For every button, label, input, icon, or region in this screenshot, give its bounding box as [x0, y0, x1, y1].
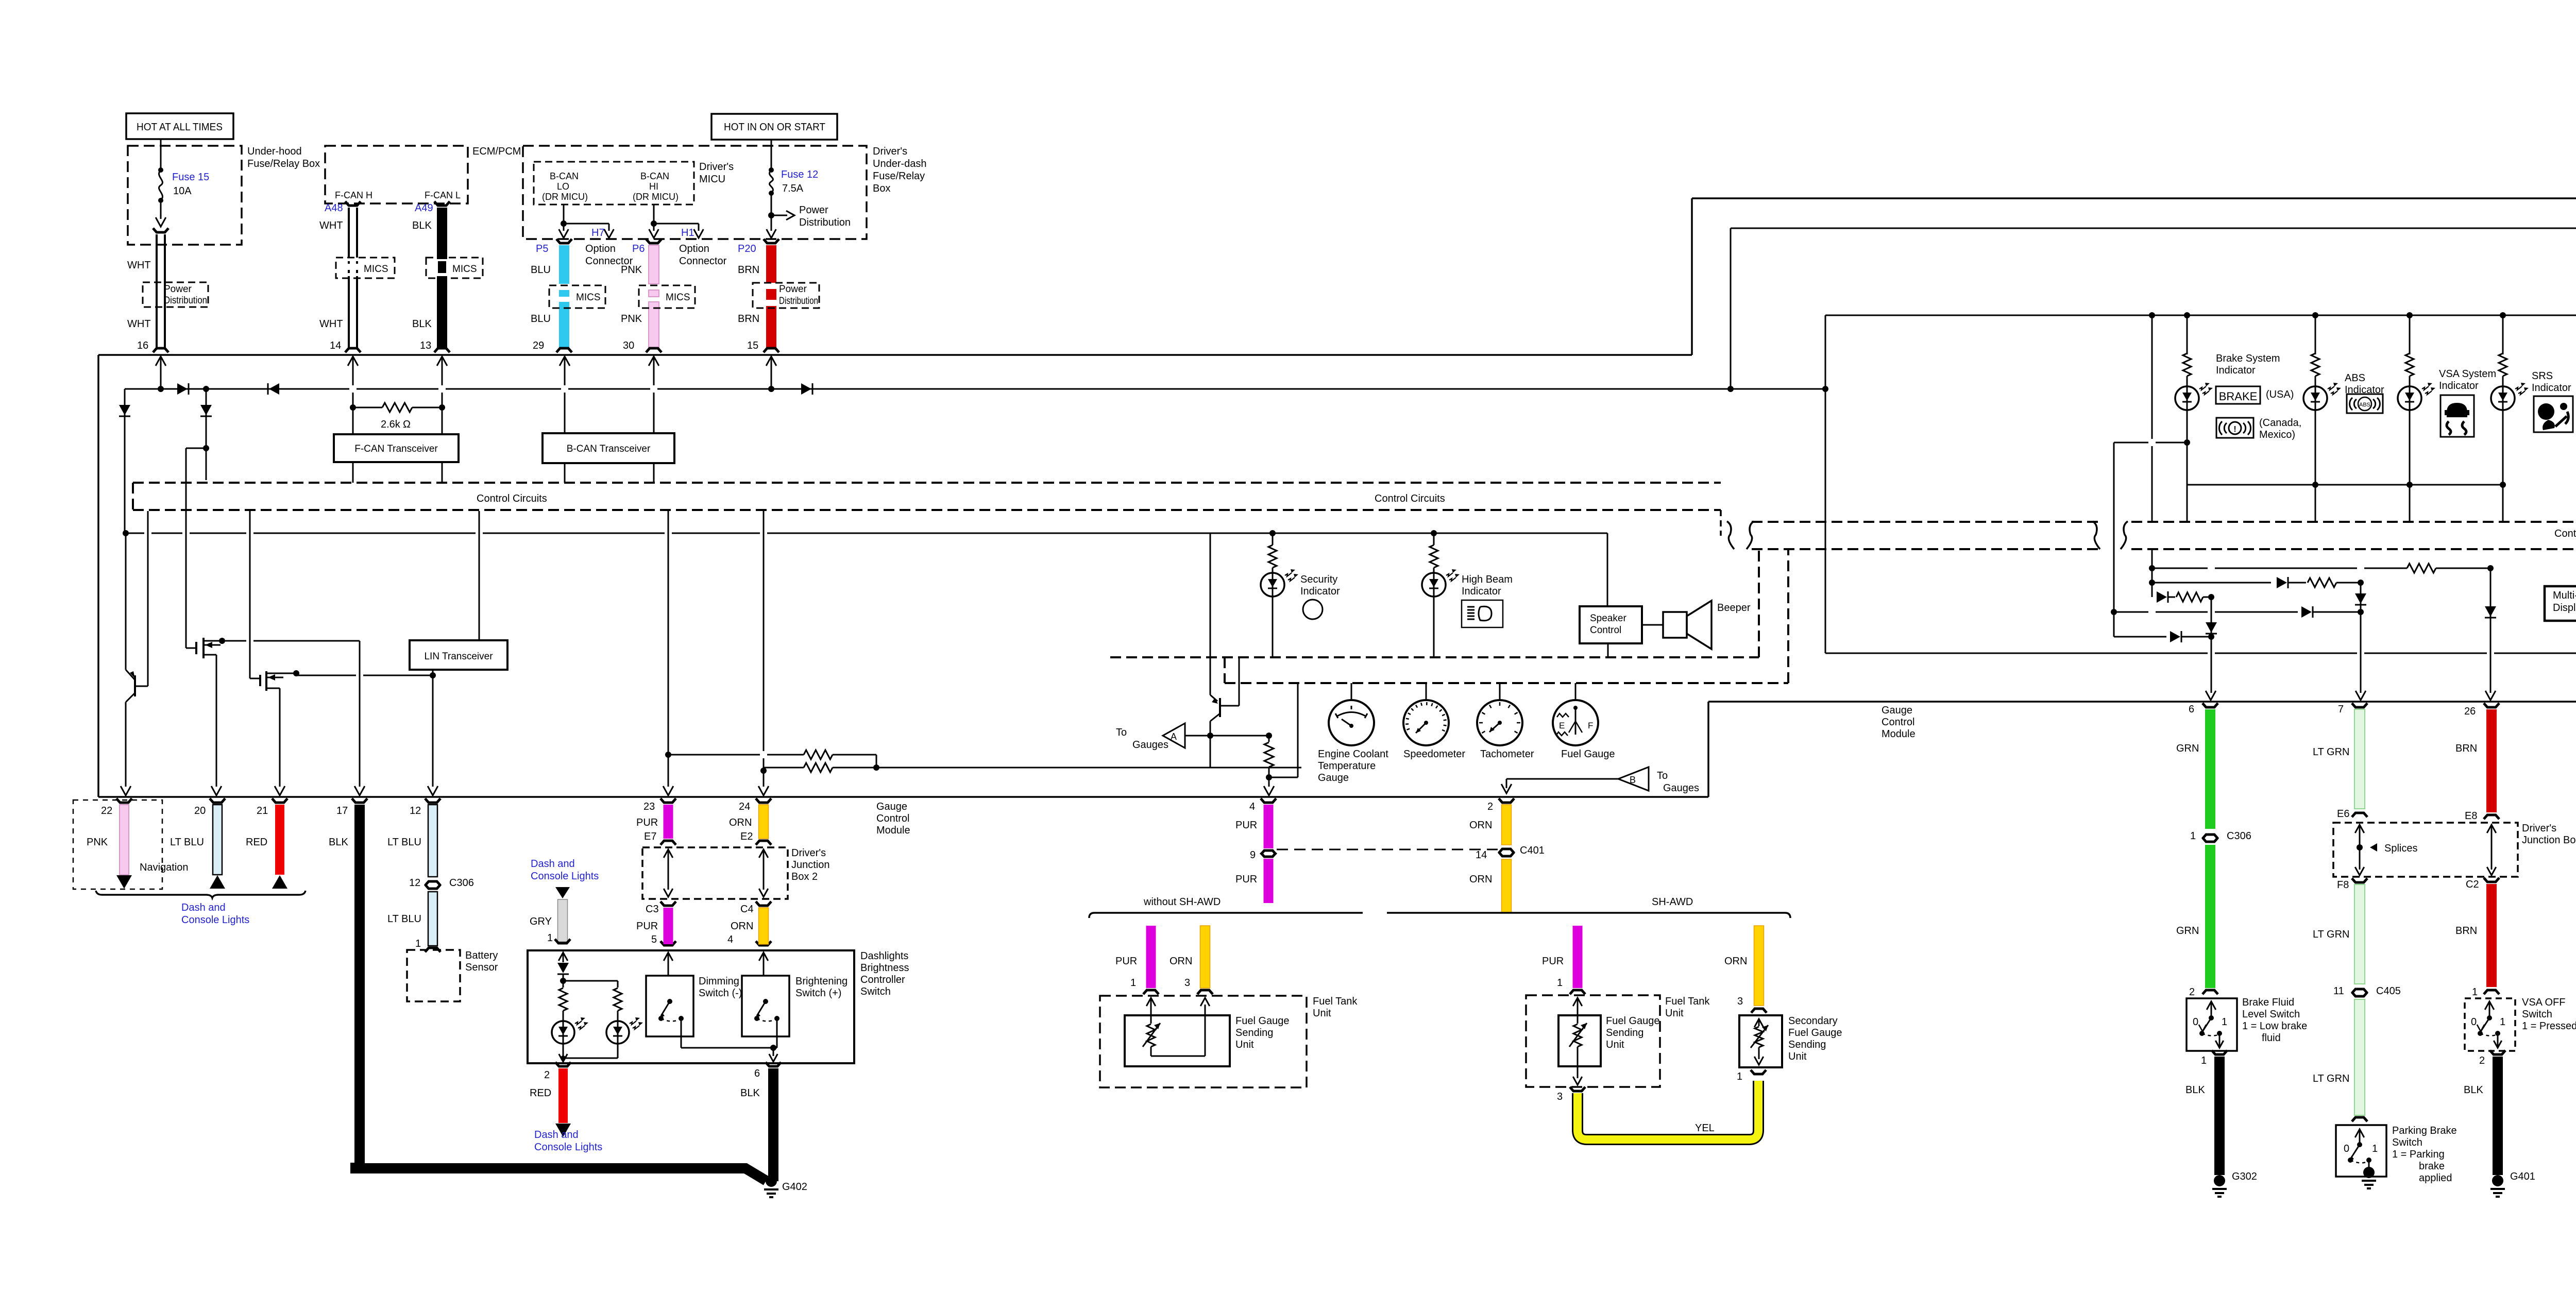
svg-text:20: 20: [194, 805, 206, 816]
indicator bus dots: [2149, 312, 2155, 318]
LIN transceiver bottom lead to terminal 12: [432, 670, 434, 787]
high beam indicator LED: [1422, 573, 1446, 597]
cup into dashlights box: [555, 939, 570, 943]
svg-text:Dimming: Dimming: [699, 976, 739, 987]
row A y=1103 with resistor: [2149, 565, 2155, 571]
branch vertical x=400: [203, 386, 209, 392]
svg-text:ORN: ORN: [1469, 820, 1492, 831]
svg-text:Ω: Ω: [403, 419, 411, 430]
svg-text:BLK: BLK: [412, 318, 432, 330]
svg-text:HOT AT ALL TIMES: HOT AT ALL TIMES: [137, 122, 223, 133]
svg-text:MICS: MICS: [452, 264, 477, 275]
svg-text:4: 4: [727, 934, 733, 945]
engine coolant temperature gauge: [1351, 683, 1352, 700]
connector cup P6: [646, 239, 662, 243]
BLK wire elbow to G402: [355, 1163, 766, 1181]
svg-text:GRN: GRN: [2176, 925, 2199, 937]
left link y=859: [2114, 442, 2148, 444]
svg-text:Engine Coolant: Engine Coolant: [1318, 748, 1388, 760]
F-CAN transceiver box: [352, 407, 354, 434]
internal line y=1035: [123, 530, 129, 536]
svg-text:P6: P6: [632, 243, 645, 254]
wire WHT F-CAN H (double line): [348, 208, 350, 258]
svg-text:MICU: MICU: [699, 174, 725, 185]
svg-text:A49: A49: [415, 202, 433, 214]
diode on rail pointing left: [269, 383, 279, 395]
wire B-CAN LO to P5 and H7: [563, 205, 565, 224]
svg-text:!: !: [2233, 425, 2236, 434]
svg-text:Gauges: Gauges: [1663, 782, 1699, 794]
connector cup 16 top: [153, 228, 168, 232]
svg-text:1: 1: [2500, 1016, 2505, 1028]
svg-text:C405: C405: [2376, 985, 2401, 997]
svg-text:Sensor: Sensor: [465, 962, 498, 973]
svg-text:B-CAN: B-CAN: [640, 171, 669, 181]
svg-text:PUR: PUR: [1235, 874, 1257, 885]
svg-text:3: 3: [1737, 996, 1743, 1007]
svg-text:4: 4: [1249, 801, 1255, 812]
svg-text:HOT IN ON OR START: HOT IN ON OR START: [724, 122, 825, 133]
svg-text:To: To: [1657, 770, 1668, 781]
svg-text:Secondary: Secondary: [1788, 1015, 1838, 1027]
gauges dashed band top y=1276: [1110, 656, 1759, 658]
terminal 4 arrow into box: [759, 952, 768, 961]
svg-text:1: 1: [2190, 830, 2196, 842]
svg-text:1: 1: [547, 932, 553, 944]
dashlight LED 1 with resistor: [563, 981, 564, 988]
svg-text:Level Switch: Level Switch: [2242, 1009, 2300, 1020]
2.6k ohm resistor between F-CAN wires: [350, 404, 356, 411]
terminal 13 internal wire: [437, 356, 447, 366]
vertical feed x=485 to MOSFET Q3 gate: [249, 511, 251, 678]
svg-text:Mexico): Mexico): [2259, 429, 2295, 440]
gauge drive row 2 with resistor: [764, 767, 804, 769]
svg-text:(DR MICU): (DR MICU): [633, 192, 679, 202]
svg-text:applied: applied: [2419, 1172, 2452, 1184]
svg-text:RED: RED: [530, 1087, 551, 1099]
svg-text:VSA OFF: VSA OFF: [2522, 997, 2565, 1008]
svg-text:Fuel Gauge: Fuel Gauge: [1606, 1015, 1660, 1027]
wire from A flag to junction: [1185, 735, 1269, 737]
svg-text:BLK: BLK: [329, 837, 348, 848]
svg-text:Unit: Unit: [1606, 1039, 1624, 1050]
svg-text:LT GRN: LT GRN: [2313, 746, 2350, 758]
vertical x=2349 from line 1035 to emitter: [1210, 533, 1211, 695]
MOSFET Q3: [259, 675, 261, 686]
svg-text:2: 2: [1487, 801, 1493, 812]
svg-text:BRN: BRN: [2455, 743, 2477, 754]
speedometer gauge: [1426, 683, 1427, 700]
svg-text:Fuse 12: Fuse 12: [781, 169, 818, 180]
svg-text:BLK: BLK: [2464, 1084, 2483, 1096]
fuel tank unit dashed box (SH-AWD): [1526, 995, 1660, 1087]
svg-text:GRY: GRY: [530, 916, 552, 927]
svg-text:Unit: Unit: [1313, 1008, 1331, 1019]
svg-text:F-CAN L: F-CAN L: [425, 190, 461, 200]
wire from HOT AT ALL TIMES into fuse box: [160, 139, 162, 170]
svg-text:Controller: Controller: [860, 974, 905, 985]
svg-text:10A: 10A: [173, 185, 192, 197]
terminal 29 internal wire: [560, 356, 570, 366]
svg-text:Console Lights: Console Lights: [531, 871, 599, 882]
vertical feed x=287 to transistor base: [147, 511, 149, 686]
secondary fuel gauge sending unit box: [1739, 1015, 1782, 1067]
svg-text:Dashlights: Dashlights: [860, 950, 908, 962]
diode down inside dashlights box: [557, 963, 569, 973]
svg-text:ORN: ORN: [729, 817, 752, 828]
svg-text:1: 1: [2372, 1143, 2378, 1154]
svg-text:15: 15: [747, 340, 758, 351]
svg-text:Indicator: Indicator: [2532, 382, 2571, 394]
svg-text:Splices: Splices: [2384, 843, 2417, 854]
label box HOT IN ON OR START: [711, 114, 837, 140]
MICS dashed box on WHT wire: [336, 258, 395, 278]
svg-text:BRN: BRN: [738, 313, 759, 325]
BLK wire to G401: [2493, 1057, 2503, 1175]
vertical x=2519 from dashed band: [1297, 684, 1299, 777]
indicator feed from line 1035 to speaker: [1210, 533, 1607, 534]
speaker control box: [1580, 606, 1642, 643]
connector cup 13: [434, 348, 450, 352]
svg-text:HI: HI: [649, 181, 658, 192]
svg-text:G302: G302: [2232, 1171, 2257, 1182]
svg-text:Gauge: Gauge: [1882, 705, 1912, 716]
svg-text:Sending: Sending: [1788, 1039, 1826, 1050]
svg-text:Connector: Connector: [679, 256, 727, 267]
wire BLU (cyan) terminal 29: [559, 245, 569, 284]
C401 connector break: [1499, 849, 1514, 853]
ECM/PCM box (dashed): [325, 146, 468, 203]
connector cup A49: [434, 201, 450, 206]
svg-text:Beeper: Beeper: [1717, 602, 1751, 614]
svg-text:16: 16: [137, 340, 148, 351]
svg-text:E: E: [1559, 721, 1565, 730]
arrow to terminal 4: [1268, 777, 1270, 787]
svg-text:ABS: ABS: [2345, 372, 2365, 384]
svg-text:Brake System: Brake System: [2216, 353, 2280, 364]
MOSFET Q2: [186, 648, 196, 649]
svg-text:Junction: Junction: [791, 859, 830, 871]
internal bus line B y=443: [1731, 228, 2576, 229]
high beam symbol box: [1462, 600, 1503, 627]
secondary sending unit internals: [1754, 1019, 1764, 1027]
svg-text:22: 22: [101, 805, 112, 816]
C405 break: [2352, 989, 2367, 993]
svg-text:fluid: fluid: [2262, 1032, 2281, 1044]
BRAKE (USA) box: [2216, 386, 2260, 404]
svg-text:ORN: ORN: [1469, 874, 1492, 885]
LIN transceiver box: [410, 640, 507, 670]
svg-text:1 = Low brake: 1 = Low brake: [2242, 1020, 2307, 1032]
svg-text:PUR: PUR: [1542, 956, 1564, 967]
diode down on x=4834: [2490, 568, 2492, 693]
svg-text:Gauge: Gauge: [876, 801, 907, 812]
svg-text:Security: Security: [1300, 574, 1337, 585]
power distribution branch arrow: [768, 212, 774, 218]
svg-text:2: 2: [2479, 1055, 2485, 1066]
parking brake switch box: [2336, 1125, 2386, 1177]
row D y=1188 with diode: [2111, 609, 2117, 615]
svg-text:C2: C2: [2466, 879, 2479, 890]
control circuits dashed band middle-right: [1752, 521, 2098, 523]
terminal 24 feed wire: [763, 510, 765, 751]
svg-text:G401: G401: [2510, 1171, 2535, 1182]
svg-text:PNK: PNK: [621, 313, 642, 325]
left branch vertical x=242: [124, 389, 126, 533]
gauge control module outline (staircase): [98, 354, 1692, 356]
svg-text:Fuel Tank: Fuel Tank: [1313, 996, 1358, 1007]
beeper speaker: [1642, 624, 1663, 626]
brightening switch box: [742, 976, 789, 1036]
svg-text:Indicator: Indicator: [2216, 365, 2256, 376]
terminal 7 wire from row: [2360, 612, 2362, 693]
svg-text:PUR: PUR: [1235, 820, 1257, 831]
wire BLK F-CAN L (thick black): [437, 208, 447, 259]
svg-text:ORN: ORN: [731, 921, 753, 932]
connector cup A48: [345, 201, 361, 206]
svg-text:Indicator: Indicator: [1300, 586, 1340, 597]
svg-text:WHT: WHT: [319, 318, 343, 330]
svg-text:Control: Control: [876, 813, 909, 824]
To Gauges flag B: [1618, 767, 1649, 791]
junction box 2 wire E2-C4: [759, 849, 768, 858]
switch output join line: [681, 1047, 777, 1049]
svg-text:0: 0: [2471, 1016, 2477, 1028]
svg-text:(Canada,: (Canada,: [2259, 417, 2301, 429]
terminal 15 arrow into module: [766, 356, 776, 366]
svg-text:0: 0: [2193, 1016, 2198, 1028]
svg-text:11: 11: [2333, 985, 2344, 997]
MICS dashed box on BLK wire: [426, 258, 483, 278]
SH-AWD PUR wire: [1573, 926, 1583, 988]
svg-text:12: 12: [410, 805, 421, 816]
svg-text:LO: LO: [557, 181, 569, 192]
svg-text:Fuel Tank: Fuel Tank: [1665, 996, 1710, 1007]
svg-text:BLK: BLK: [412, 220, 432, 231]
row E y=1236 with diode: [2113, 612, 2115, 637]
continuation braces left band: [1727, 521, 1734, 549]
svg-text:BLK: BLK: [2185, 1084, 2205, 1096]
svg-text:Indicator: Indicator: [1462, 586, 1501, 597]
svg-text:13: 13: [420, 340, 431, 351]
PNP collector down to terminal 22: [126, 693, 135, 702]
svg-text:(DR MICU): (DR MICU): [542, 192, 588, 202]
svg-text:SRS: SRS: [2532, 370, 2553, 382]
fuel tank unit dashed box (without SH-AWD): [1100, 996, 1307, 1087]
svg-text:Module: Module: [876, 825, 910, 836]
svg-text:PUR: PUR: [636, 817, 658, 828]
diode down on x=400 branch: [200, 405, 212, 415]
svg-text:24: 24: [739, 801, 750, 812]
svg-text:6: 6: [2189, 704, 2194, 715]
svg-text:P20: P20: [738, 243, 756, 254]
vertical link line C x=3543: [1825, 315, 1826, 389]
GRY feed triangle: [555, 887, 570, 898]
svg-text:PNK: PNK: [621, 264, 642, 276]
svg-text:Switch: Switch: [860, 986, 891, 997]
svg-text:Control Circuits: Control Circuits: [1375, 493, 1445, 504]
svg-text:SH-AWD: SH-AWD: [1652, 896, 1693, 908]
svg-text:Control Circuits: Control Circuits: [477, 493, 547, 504]
svg-text:BLK: BLK: [740, 1087, 760, 1099]
svg-text:Indicator: Indicator: [2439, 380, 2479, 392]
svg-text:brake: brake: [2419, 1161, 2445, 1172]
svg-text:Speaker: Speaker: [1590, 613, 1626, 624]
cup into battery sensor: [425, 948, 440, 952]
ground G402: [766, 1176, 777, 1187]
wire B-CAN HI to P6 and H1: [653, 205, 655, 224]
svg-text:B-CAN Transceiver: B-CAN Transceiver: [567, 444, 651, 454]
dashed link 9 to C401: [1277, 849, 1498, 850]
svg-text:1: 1: [1557, 977, 1563, 989]
diode down on x=4292: [2211, 597, 2212, 693]
svg-text:6: 6: [754, 1068, 760, 1079]
SRS icon box: [2534, 396, 2573, 432]
svg-text:F-CAN H: F-CAN H: [335, 190, 372, 200]
indicator bottom rail y=941: [2187, 484, 2503, 486]
elbow to x=361 branch: [186, 448, 206, 449]
row C y=1159 with diode and resistor: [2151, 583, 2153, 597]
svg-text:E8: E8: [2465, 810, 2477, 822]
wire fuse to terminal: [160, 200, 162, 219]
svg-text:Unit: Unit: [1788, 1051, 1807, 1062]
GRY wire: [558, 899, 568, 942]
svg-text:A: A: [1171, 731, 1177, 742]
svg-text:Brake Fluid: Brake Fluid: [2242, 997, 2294, 1008]
svg-text:Battery: Battery: [465, 950, 498, 961]
svg-text:Dash and: Dash and: [531, 858, 575, 870]
svg-text:BRAKE: BRAKE: [2219, 390, 2258, 403]
svg-text:7.5A: 7.5A: [782, 183, 804, 194]
SH-AWD ORN wire: [1754, 926, 1764, 1006]
dashlight LED 2 with resistor: [614, 988, 622, 1011]
svg-text:Gauges: Gauges: [1132, 739, 1168, 751]
output arrow to terminal 2: [563, 1058, 564, 1060]
svg-text:WHT: WHT: [319, 220, 343, 231]
svg-text:Fuel Gauge: Fuel Gauge: [1561, 748, 1615, 760]
svg-text:without SH-AWD: without SH-AWD: [1143, 896, 1221, 908]
svg-text:RED: RED: [246, 837, 267, 848]
MOSFET Q2 drain line to terminal 17: [222, 640, 246, 642]
svg-text:Power: Power: [779, 284, 807, 295]
svg-text:C3: C3: [646, 904, 659, 915]
svg-text:1: 1: [415, 938, 421, 949]
ABS icon box: [2347, 394, 2383, 413]
transistor Q4 near gauges: [1210, 695, 1217, 701]
label box HOT AT ALL TIMES: [126, 113, 233, 139]
MICS dashed box on BLU wire: [549, 285, 605, 308]
junction box 2 wire E7-C3: [664, 849, 673, 858]
row B y=1131 with diode and resistor: [2149, 580, 2155, 586]
Power Distribution dashed box on BRN wire: [753, 283, 819, 308]
svg-text:Sending: Sending: [1235, 1027, 1273, 1039]
B-CAN transceiver box: [543, 433, 674, 463]
elbow line to right lower section y=1268: [1825, 653, 2208, 654]
svg-text:LT BLU: LT BLU: [387, 837, 421, 848]
svg-text:2: 2: [544, 1069, 550, 1081]
svg-text:BLU: BLU: [531, 264, 551, 276]
svg-text:To: To: [1116, 727, 1127, 738]
svg-text:21: 21: [257, 805, 268, 816]
svg-text:Unit: Unit: [1235, 1039, 1254, 1050]
svg-text:Power: Power: [799, 205, 828, 216]
svg-text:1 = Parking: 1 = Parking: [2392, 1149, 2445, 1160]
svg-text:F-CAN Transceiver: F-CAN Transceiver: [354, 444, 438, 454]
svg-text:Fuel Gauge: Fuel Gauge: [1788, 1027, 1842, 1039]
splices symbol: [2355, 825, 2364, 833]
LED verticals down to control band: [2187, 485, 2188, 522]
connector cup 16 bottom: [153, 348, 168, 352]
dimming switch box: [646, 976, 693, 1036]
fuel gauge: [1575, 683, 1577, 700]
svg-text:2: 2: [2189, 986, 2195, 998]
GRY input arrow: [558, 952, 568, 961]
fuse F12: [769, 167, 774, 173]
svg-text:3: 3: [1184, 977, 1190, 989]
svg-text:Gauge: Gauge: [1318, 772, 1349, 784]
brake fluid level switch box: [2187, 998, 2237, 1051]
svg-text:Parking Brake: Parking Brake: [2392, 1125, 2457, 1136]
svg-text:LT GRN: LT GRN: [2313, 1073, 2350, 1084]
svg-text:1: 1: [1130, 977, 1136, 989]
multi-info display box: [2545, 586, 2576, 621]
row2 riser to A junction: [1210, 736, 1211, 768]
terminal 2 feed corner to B flag: [1506, 779, 1507, 788]
SRS indicator branch: [2502, 315, 2504, 354]
internal power rail y=755: [125, 388, 349, 390]
terminal 30 internal wire: [649, 356, 659, 366]
BLK wire to G302: [2214, 1057, 2225, 1175]
svg-text:PUR: PUR: [636, 921, 658, 932]
svg-text:Fuel Gauge: Fuel Gauge: [1235, 1015, 1290, 1027]
svg-text:Console Lights: Console Lights: [181, 914, 249, 926]
svg-text:Box 2: Box 2: [791, 871, 818, 882]
fuel gauge sending unit box: [1125, 1015, 1230, 1066]
connector cup 30: [646, 348, 662, 352]
svg-text:Dash and: Dash and: [181, 902, 226, 913]
junction box wire E8-C2: [2487, 825, 2496, 833]
svg-text:Power: Power: [164, 284, 192, 295]
high beam resistor: [1431, 530, 1437, 536]
svg-text:C306: C306: [449, 877, 474, 889]
svg-text:ABS: ABS: [2359, 402, 2370, 408]
internal bus line C y=612: [1825, 315, 2576, 316]
svg-text:High Beam: High Beam: [1462, 574, 1513, 585]
svg-text:14: 14: [1476, 849, 1487, 861]
svg-text:Switch (+): Switch (+): [795, 988, 841, 999]
continuation braces middle: [2093, 521, 2100, 549]
svg-text:Box: Box: [873, 183, 890, 194]
svg-text:3: 3: [1557, 1091, 1563, 1102]
svg-text:YEL: YEL: [1695, 1122, 1715, 1134]
svg-text:Display (: Display (: [2553, 602, 2576, 614]
svg-text:14: 14: [330, 340, 341, 351]
svg-text:Option: Option: [585, 243, 616, 254]
svg-text:7: 7: [2338, 704, 2344, 715]
svg-text:Driver's: Driver's: [699, 161, 734, 173]
svg-text:LT BLU: LT BLU: [387, 913, 421, 925]
svg-text:2.6k: 2.6k: [381, 419, 401, 430]
terminal 16 arrow into module: [156, 356, 166, 366]
svg-text:23: 23: [643, 801, 655, 812]
wire WHT terminal 16 (double line): [156, 234, 158, 349]
svg-text:12: 12: [409, 877, 420, 889]
svg-text:17: 17: [336, 805, 348, 816]
svg-text:Control Circuits: Control Circuits: [2554, 528, 2576, 539]
svg-text:PNK: PNK: [87, 837, 108, 848]
connector cup P5: [556, 239, 572, 243]
navigation dashed box: [73, 800, 162, 889]
